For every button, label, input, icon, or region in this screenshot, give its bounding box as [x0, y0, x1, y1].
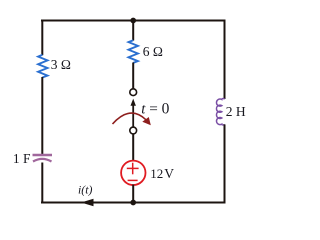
capacitor 1F (plum plates): [33, 155, 53, 162]
wire: switch to voltage source: [132, 134, 134, 161]
svg-text:2 H: 2 H: [226, 104, 246, 119]
resistor 3 ohm (blue zigzag): [38, 55, 47, 78]
node: top junction dot: [130, 18, 136, 24]
wire: voltage source to bottom rail: [132, 185, 134, 204]
resistor 6 ohm (blue zigzag): [129, 40, 138, 63]
wire: left branch lower segment: [41, 163, 43, 204]
wire: top rail: [41, 20, 226, 22]
voltage source 12V (red circle with +/-): [121, 161, 145, 185]
wire: left branch middle segment (resistor to capacitor): [41, 77, 43, 155]
wire: 6 ohm to switch top terminal: [132, 63, 134, 89]
inductor 2H (purple coil): [216, 99, 224, 125]
svg-text:6 Ω: 6 Ω: [143, 44, 163, 59]
svg-text:i(t): i(t): [78, 182, 92, 196]
wire: middle branch top segment: [132, 21, 134, 41]
switch action arc (dark red, closing at t=0): [113, 113, 151, 125]
switch terminal (top open circle): [130, 89, 137, 96]
switch blade arrow (vertical, pointing up): [131, 99, 136, 127]
node: bottom junction dot: [130, 200, 136, 206]
svg-text:1 F: 1 F: [13, 151, 31, 166]
current direction arrow i(t) on bottom rail: [81, 199, 94, 206]
wire: bottom rail: [41, 202, 226, 204]
svg-text:3 Ω: 3 Ω: [51, 57, 71, 72]
wire: right branch lower segment: [224, 124, 226, 203]
switch terminal (bottom open circle): [130, 127, 137, 134]
wire: left branch upper segment: [41, 20, 43, 56]
wire: right branch upper segment: [224, 20, 226, 100]
svg-text:12V: 12V: [150, 166, 174, 181]
